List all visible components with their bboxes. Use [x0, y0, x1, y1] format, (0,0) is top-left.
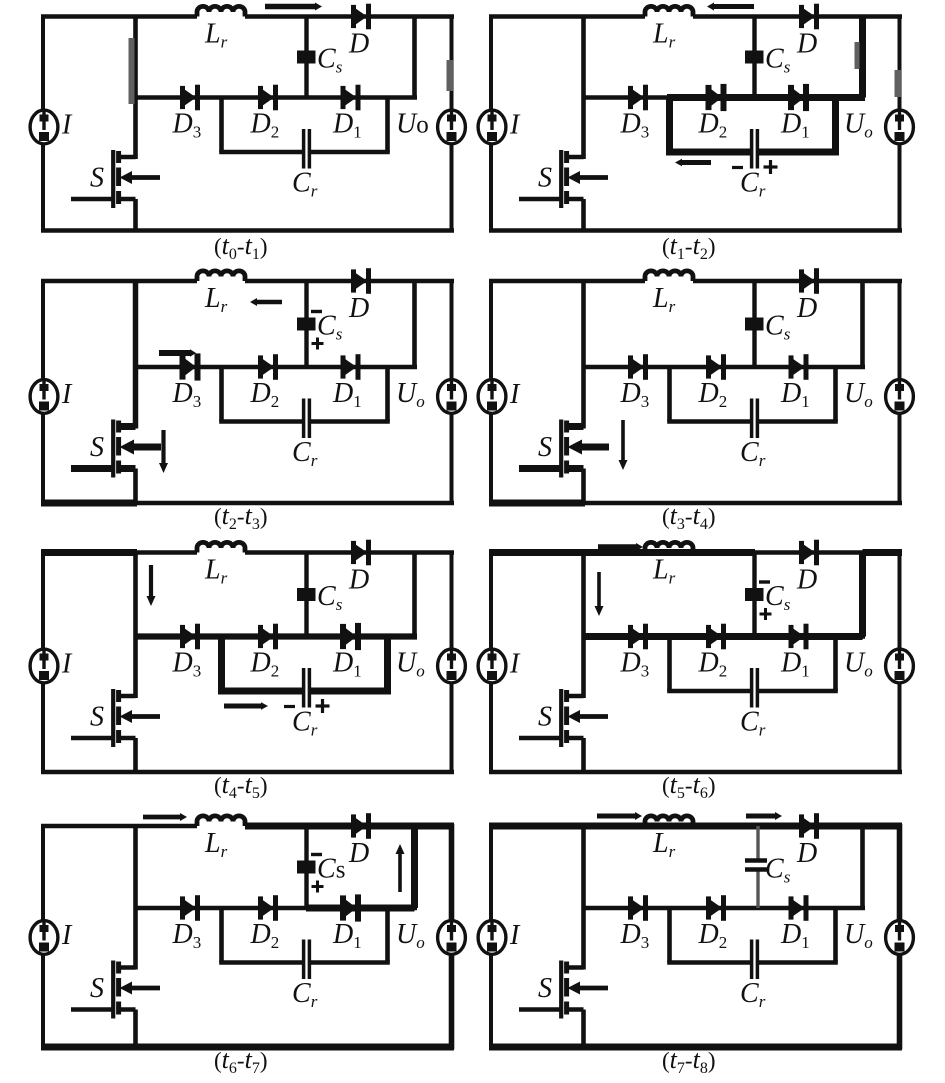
diode D1 (t7-t8)	[789, 896, 794, 919]
wire: switch drain branch (t6-t7)	[133, 826, 138, 970]
wire: source branch of S to bottom bus (t7-t8)	[581, 1010, 586, 1048]
wire: switch drain branch (t3-t4)	[581, 281, 586, 429]
diode D (t7-t8)	[799, 814, 804, 837]
current direction arrow (vertical) (t6-t7)	[398, 854, 402, 892]
inductor Lr (t2-t3)	[197, 271, 245, 281]
wire: snubber capacitor Cs branch (t0-t1)	[304, 17, 308, 98]
wire: diode cathode bus (middle) (t2-t3)	[136, 365, 418, 370]
svg-text:I: I	[61, 920, 73, 951]
current source I (t5-t6)	[478, 649, 506, 683]
wire: gate lead of S (t0-t1)	[71, 197, 113, 202]
transistor S (MOSFET) (t2-t3)	[119, 423, 136, 430]
current arrow near Cr (t4-t5)	[224, 704, 261, 709]
inductor Lr (t3-t4)	[645, 271, 693, 281]
wire: right branch to output source (t2-t3)	[450, 279, 454, 505]
polarity plus of Cr (t1-t2)	[764, 165, 778, 168]
wire: right branch to output source (t6-t7)	[449, 824, 455, 1049]
wire: snubber capacitor Cs branch (t2-t3)	[304, 281, 308, 367]
svg-text:D: D	[348, 293, 369, 324]
wire: vertical from cathode bus to top-right node (t5-t6)	[859, 553, 866, 637]
capacitor Cr (t5-t6)	[750, 668, 754, 708]
diode D1 (t0-t1)	[341, 86, 346, 109]
diode D2 (t3-t4)	[706, 355, 711, 378]
output source Uo (t0-t1)	[438, 110, 466, 144]
polarity minus of Cr (t1-t2)	[732, 166, 743, 169]
wire: diode cathode bus (middle) (t0-t1)	[136, 95, 418, 100]
polarity plus of Cr (t4-t5)	[316, 704, 330, 707]
capacitor Cr (t0-t1)	[302, 129, 306, 169]
wire: left branch to current source (t3-t4)	[489, 279, 493, 505]
wire: bottom bus (t3-t4)	[489, 501, 902, 506]
wire: resonant capacitor Cr loop (t1-t2)	[666, 98, 673, 153]
wire: bottom bus (t7-t8)	[489, 1045, 902, 1050]
wire: snubber capacitor Cs branch (t1-t2)	[752, 17, 756, 98]
wire: snubber capacitor Cs branch (t5-t6)	[752, 553, 756, 637]
wire: gate lead of S (t7-t8)	[519, 1007, 561, 1012]
diode D3 (t2-t3)	[180, 354, 186, 379]
diode D2 (t4-t5)	[258, 625, 263, 648]
wire: top bus with inductor hump (t3-t4)	[489, 279, 645, 284]
current arrow into S channel (t5-t6)	[579, 714, 608, 719]
current arrow over D3 (t2-t3)	[159, 350, 190, 356]
current arrow into S channel (t0-t1)	[131, 175, 160, 180]
polarity plus of Cs (t6-t7)	[312, 885, 324, 888]
inductor Lr (t5-t6)	[645, 542, 693, 552]
diode D1 (t2-t3)	[341, 355, 346, 378]
wire: gate lead of S (t2-t3)	[71, 465, 113, 472]
capacitor Cr (t1-t2)	[750, 129, 754, 169]
capacitor Cr (t2-t3)	[302, 399, 306, 439]
svg-text:S: S	[90, 973, 104, 1004]
wire: diode cathode bus (middle) (t7-t8)	[584, 906, 866, 911]
transistor S (MOSFET) (t5-t6)	[567, 694, 584, 699]
diode D (t0-t1)	[351, 5, 356, 28]
inductor Lr (t6-t7)	[197, 816, 245, 826]
diode D3 (t0-t1)	[180, 86, 185, 109]
wire: resonant capacitor Cr loop (t2-t3)	[219, 367, 224, 422]
diode D2 (t0-t1)	[258, 86, 263, 109]
grey conduction mark (t1-t2)	[855, 42, 860, 69]
svg-text:Cs: Cs	[317, 854, 345, 885]
wire: right branch to output source (t4-t5)	[450, 551, 454, 775]
inductor Lr (t0-t1)	[197, 6, 245, 16]
wire: vertical from cathode bus to top-right node (t7-t8)	[860, 826, 865, 908]
current arrow near Cr (t1-t2)	[682, 160, 711, 165]
svg-text:(t2-t3): (t2-t3)	[214, 501, 267, 533]
wire: diode cathode bus (middle) (t4-t5)	[136, 634, 418, 639]
inductor Lr (t4-t5)	[197, 542, 245, 552]
output source Uo (t4-t5)	[438, 649, 466, 683]
capacitor Cr (t6-t7)	[302, 940, 306, 980]
diode D3 (t1-t2)	[628, 86, 633, 109]
current arrow into S channel (t2-t3)	[133, 444, 161, 451]
wire: vertical from cathode bus to top-right node (t0-t1)	[412, 17, 417, 98]
svg-text:(t7-t8): (t7-t8)	[662, 1045, 715, 1077]
wire: top bus with inductor hump (t7-t8)	[489, 824, 645, 829]
svg-text:I: I	[509, 649, 521, 680]
wire: gate lead of S (t6-t7)	[71, 1007, 113, 1012]
diode D2 (t6-t7)	[258, 896, 263, 919]
capacitor Cs (t4-t5)	[297, 588, 316, 601]
wire: snubber capacitor Cs branch (t7-t8)	[756, 826, 759, 862]
polarity minus of Cr (t4-t5)	[284, 705, 295, 708]
diode D2 (t2-t3)	[258, 355, 263, 378]
current arrow into S channel (t6-t7)	[131, 986, 160, 991]
output source Uo (t5-t6)	[886, 649, 914, 683]
grey conduction mark (t0-t1)	[447, 60, 454, 91]
current direction arrow (top) (t0-t1)	[265, 4, 315, 9]
wire: vertical from cathode bus to top-right node (t3-t4)	[860, 281, 865, 367]
wire: resonant capacitor Cr loop (t3-t4)	[667, 367, 672, 422]
diode D1 (t6-t7)	[340, 895, 346, 920]
wire: bottom bus (t1-t2)	[489, 228, 902, 233]
wire: source branch of S to bottom bus (t4-t5)	[133, 738, 138, 772]
inductor Lr (t7-t8)	[645, 816, 693, 826]
capacitor Cr (t3-t4)	[750, 399, 754, 439]
current source I (t1-t2)	[478, 110, 506, 144]
wire: gate lead of S (t3-t4)	[519, 465, 561, 472]
wire: diode cathode bus (middle) (t1-t2)	[584, 95, 866, 100]
svg-text:I: I	[509, 379, 521, 410]
current direction arrow (vertical) (t2-t3)	[161, 430, 165, 463]
svg-text:S: S	[90, 163, 104, 194]
svg-text:(t1-t2): (t1-t2)	[662, 231, 715, 263]
transistor S (MOSFET) (t6-t7)	[119, 965, 136, 970]
wire: snubber capacitor Cs branch (t4-t5)	[304, 553, 308, 637]
wire: switch drain branch (t5-t6)	[581, 553, 586, 699]
current arrow into S channel (t7-t8)	[579, 986, 608, 991]
diode D3 (t3-t4)	[628, 355, 633, 378]
wire: resonant capacitor Cr loop (t6-t7)	[219, 908, 224, 963]
current source I (t7-t8)	[478, 921, 506, 955]
wire: diode cathode bus (middle) (t3-t4)	[584, 365, 866, 370]
capacitor Cs (t2-t3)	[297, 318, 316, 331]
polarity minus of Cs (t6-t7)	[311, 853, 322, 856]
grey conduction mark (t0-t1)	[129, 38, 135, 104]
capacitor Cs (t5-t6)	[745, 588, 764, 601]
wire: switch drain branch (t7-t8)	[581, 826, 586, 970]
output source Uo (t3-t4)	[886, 380, 914, 414]
wire: right branch to output source (t3-t4)	[898, 279, 902, 505]
wire: left branch to current source (t1-t2)	[489, 15, 493, 233]
current direction arrow (top) (t5-t6)	[598, 544, 636, 550]
svg-text:I: I	[61, 379, 73, 410]
capacitor Cs (t1-t2)	[745, 51, 764, 64]
wire: left branch to current source (t2-t3)	[41, 279, 45, 505]
wire: top bus with inductor hump (t2-t3)	[41, 279, 197, 284]
svg-text:S: S	[90, 432, 104, 463]
diode D (t4-t5)	[351, 541, 356, 564]
polarity minus of Cs (t5-t6)	[759, 580, 770, 583]
wire: left branch to current source (t0-t1)	[41, 15, 45, 233]
wire: switch drain branch (t1-t2)	[581, 17, 586, 160]
diode D3 (t4-t5)	[180, 625, 185, 648]
wire: vertical from cathode bus to top-right node (t4-t5)	[412, 553, 417, 637]
svg-text:S: S	[538, 702, 552, 733]
wire: resonant capacitor Cr loop (t5-t6)	[667, 637, 672, 692]
wire: snubber capacitor Cs branch (t6-t7)	[304, 826, 308, 908]
wire: resonant capacitor Cr loop (t7-t8)	[667, 908, 672, 963]
diode D (t5-t6)	[799, 541, 804, 564]
svg-text:(t3-t4): (t3-t4)	[662, 501, 715, 533]
diode D (t2-t3)	[351, 269, 356, 292]
wire: right branch to output source (t0-t1)	[450, 15, 454, 233]
current source I (t2-t3)	[30, 380, 58, 414]
current direction arrow (top) (t6-t7)	[143, 815, 180, 820]
svg-text:D: D	[796, 565, 817, 596]
polarity plus of Cs (t5-t6)	[760, 613, 772, 616]
diode D3 (t5-t6)	[628, 625, 633, 648]
wire: switch drain branch (t0-t1)	[133, 17, 138, 160]
current source I (t0-t1)	[30, 110, 58, 144]
current direction arrow (top) (t7-t8)	[746, 814, 775, 819]
output source Uo (t1-t2)	[886, 110, 914, 144]
wire: bottom bus (t2-t3)	[41, 501, 454, 506]
svg-text:I: I	[61, 110, 73, 141]
current source I (t6-t7)	[30, 921, 58, 955]
wire: diode cathode bus (middle) (t6-t7)	[136, 906, 418, 911]
wire: source branch of S to bottom bus (t6-t7)	[133, 1010, 138, 1048]
wire: resonant capacitor Cr loop (t4-t5)	[218, 637, 225, 692]
wire: switch drain branch (t4-t5)	[133, 553, 138, 699]
svg-text:D: D	[796, 29, 817, 60]
capacitor Cr (t7-t8)	[750, 940, 754, 980]
wire: vertical from cathode bus to top-right node (t1-t2)	[859, 17, 866, 98]
wire: bottom bus (t0-t1)	[41, 228, 454, 233]
current direction arrow (vertical) (t5-t6)	[597, 572, 601, 606]
grey conduction mark (t1-t2)	[895, 70, 902, 97]
diode D2 (t5-t6)	[706, 625, 711, 648]
diode D3 (t7-t8)	[628, 896, 633, 919]
output source Uo (t7-t8)	[886, 921, 914, 955]
wire: source branch of S to bottom bus (t3-t4)	[581, 469, 586, 504]
current source I (t3-t4)	[478, 380, 506, 414]
diode D1 (t3-t4)	[789, 355, 794, 378]
wire: gate lead of S (t1-t2)	[519, 197, 561, 202]
wire: left branch to current source (t7-t8)	[489, 824, 493, 1049]
diode D2 (t1-t2)	[706, 85, 712, 110]
current direction arrow (top) (t1-t2)	[714, 4, 754, 9]
wire: top bus with inductor hump (t1-t2)	[489, 14, 645, 19]
diode D1 (t1-t2)	[788, 85, 794, 110]
polarity plus of Cs (t2-t3)	[312, 342, 324, 345]
wire: snubber capacitor Cs branch (t3-t4)	[752, 281, 756, 367]
svg-text:I: I	[61, 649, 73, 680]
wire: left branch to current source (t5-t6)	[489, 551, 493, 775]
wire: diode cathode bus (middle) (t5-t6)	[584, 634, 866, 639]
svg-text:S: S	[90, 702, 104, 733]
svg-text:D: D	[348, 838, 369, 869]
capacitor Cs (t7-t8)	[745, 858, 767, 862]
wire: resonant capacitor Cr loop (t0-t1)	[219, 98, 224, 153]
wire: right branch to output source (t5-t6)	[898, 551, 902, 775]
current arrow into S channel (t4-t5)	[131, 714, 160, 719]
current direction arrow (top) (t7-t8)	[597, 814, 635, 819]
wire: gate lead of S (t5-t6)	[519, 736, 561, 741]
current source I (t4-t5)	[30, 649, 58, 683]
wire: source branch of S to bottom bus (t1-t2)	[581, 199, 586, 231]
capacitor Cs (t0-t1)	[297, 51, 316, 64]
diode D (t3-t4)	[799, 269, 804, 292]
capacitor Cr (t4-t5)	[302, 668, 306, 708]
wire: right branch to output source (t7-t8)	[897, 824, 903, 1049]
wire: vertical from cathode bus to top-right node (t6-t7)	[411, 826, 418, 908]
capacitor Cs (t3-t4)	[745, 318, 764, 331]
wire: bottom bus (t6-t7)	[41, 1045, 454, 1050]
wire: source branch of S to bottom bus (t0-t1)	[133, 199, 138, 231]
wire: bottom bus (t4-t5)	[41, 770, 454, 775]
diode D3 (t6-t7)	[180, 896, 185, 919]
svg-text:Uo: Uo	[396, 109, 429, 140]
wire: vertical from cathode bus to top-right node (t2-t3)	[412, 281, 417, 367]
svg-text:I: I	[509, 110, 521, 141]
output source Uo (t6-t7)	[438, 921, 466, 955]
svg-text:(t4-t5): (t4-t5)	[214, 770, 267, 802]
current direction arrow (vertical) (t4-t5)	[149, 565, 153, 596]
output source Uo (t2-t3)	[438, 380, 466, 414]
current direction arrow (top) (t2-t3)	[257, 300, 282, 305]
svg-text:I: I	[509, 920, 521, 951]
inductor Lr (t1-t2)	[645, 6, 693, 16]
svg-text:D: D	[796, 838, 817, 869]
transistor S (MOSFET) (t3-t4)	[567, 423, 584, 430]
svg-text:D: D	[796, 293, 817, 324]
wire: source branch of S to bottom bus (t2-t3)	[133, 469, 138, 504]
wire: source branch of S to bottom bus (t5-t6)	[581, 738, 586, 772]
current arrow into S channel (t3-t4)	[581, 444, 609, 451]
wire: top bus with inductor hump (t6-t7)	[41, 824, 197, 829]
diode D (t6-t7)	[351, 814, 356, 837]
svg-text:D: D	[348, 565, 369, 596]
wire: top bus with inductor hump (t4-t5)	[41, 550, 197, 555]
transistor S (MOSFET) (t4-t5)	[119, 694, 136, 699]
svg-text:(t6-t7): (t6-t7)	[214, 1045, 267, 1077]
svg-text:S: S	[538, 432, 552, 463]
transistor S (MOSFET) (t0-t1)	[119, 155, 136, 160]
wire: bottom bus (t5-t6)	[489, 770, 902, 775]
wire: switch drain branch (t2-t3)	[133, 281, 139, 429]
wire: left branch to current source (t6-t7)	[41, 824, 45, 1049]
wire: right branch to output source (t1-t2)	[898, 15, 902, 233]
svg-text:D: D	[348, 29, 369, 60]
diode D1 (t4-t5)	[340, 624, 346, 649]
capacitor Cs (t6-t7)	[297, 861, 316, 874]
transistor S (MOSFET) (t7-t8)	[567, 965, 584, 970]
polarity minus of Cs (t2-t3)	[311, 310, 322, 313]
svg-text:S: S	[538, 973, 552, 1004]
diode D2 (t7-t8)	[706, 896, 711, 919]
diode D (t1-t2)	[799, 5, 804, 28]
current arrow into S channel (t1-t2)	[579, 175, 608, 180]
diode D1 (t5-t6)	[789, 625, 794, 648]
wire: gate lead of S (t4-t5)	[71, 736, 113, 741]
wire: top bus with inductor hump (t5-t6)	[489, 550, 645, 555]
transistor S (MOSFET) (t1-t2)	[567, 155, 584, 160]
svg-text:S: S	[538, 163, 552, 194]
current direction arrow (vertical) (t3-t4)	[621, 420, 625, 460]
svg-text:(t5-t6): (t5-t6)	[662, 770, 715, 802]
wire: top bus with inductor hump (t0-t1)	[41, 14, 197, 19]
svg-text:(t0-t1): (t0-t1)	[214, 231, 267, 263]
wire: left branch to current source (t4-t5)	[41, 551, 45, 775]
